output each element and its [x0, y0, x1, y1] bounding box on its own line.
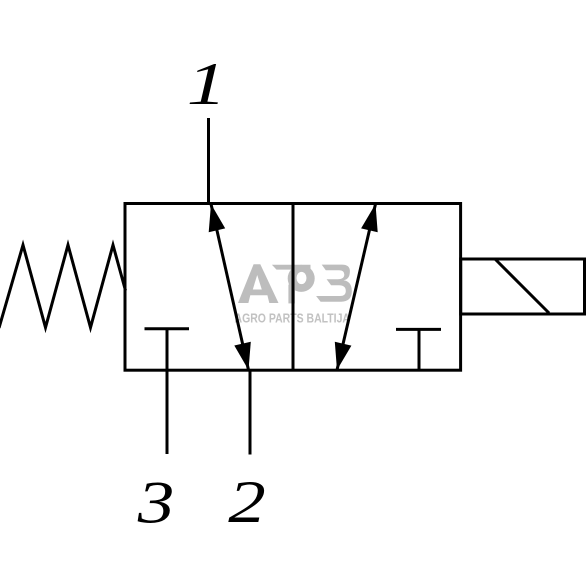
watermark logo letter P: [272, 265, 315, 304]
left box flow arrow shaft: [211, 204, 249, 370]
solenoid actuator diagonal: [496, 260, 550, 314]
port 1 line: [207, 118, 210, 204]
right box flow arrow head bottom: [335, 342, 352, 370]
right box blocked port symbol: [396, 329, 441, 370]
right box flow arrow head top: [361, 204, 378, 232]
svg-text:1: 1: [187, 51, 227, 118]
left box blocked port symbol: [145, 329, 190, 454]
valve body divider (right position box edge): [292, 204, 295, 371]
port 2 line: [249, 370, 252, 455]
watermark logo letter A: [238, 264, 279, 303]
watermark logo letter B (stylized 3): [316, 265, 352, 302]
svg-text:2: 2: [228, 468, 265, 535]
valve body left position box: [125, 204, 461, 371]
right box flow arrow shaft: [337, 204, 376, 370]
left box flow arrow head top: [209, 204, 226, 232]
svg-text:3: 3: [137, 470, 175, 536]
return spring: [0, 245, 126, 328]
solenoid actuator box: [461, 259, 585, 314]
left box flow arrow head bottom: [234, 342, 251, 370]
